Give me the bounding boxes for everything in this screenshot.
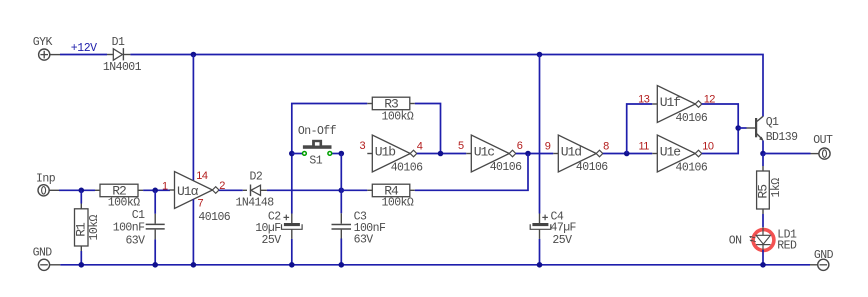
wire: [516, 153, 554, 155]
junction: [537, 262, 543, 268]
op-amp U1f: [652, 103, 657, 105]
svg-text:D2: D2: [250, 171, 263, 184]
junction: [152, 262, 158, 268]
svg-text:11: 11: [639, 140, 650, 152]
wire: [340, 154, 342, 214]
wire: [60, 54, 107, 56]
wire: [130, 55, 763, 117]
svg-text:40106: 40106: [676, 161, 708, 174]
svg-text:40106: 40106: [490, 161, 522, 174]
svg-text:40106: 40106: [198, 211, 230, 224]
svg-text:100kΩ: 100kΩ: [382, 196, 414, 209]
diode D1: [107, 54, 113, 56]
junction: [339, 151, 345, 157]
svg-text:10kΩ: 10kΩ: [88, 214, 101, 240]
junction: [735, 125, 741, 131]
svg-text:40106: 40106: [576, 161, 608, 174]
wire: [154, 190, 156, 214]
svg-text:7: 7: [198, 197, 204, 209]
wire: [219, 189, 243, 191]
svg-text:ON: ON: [729, 235, 742, 248]
svg-text:1: 1: [162, 180, 168, 192]
resistor R3: [367, 103, 372, 105]
junction: [191, 262, 197, 268]
wire: [762, 250, 764, 265]
wire: [702, 128, 738, 154]
junction: [289, 262, 295, 268]
resistor R1: [80, 204, 82, 209]
wire: [292, 104, 368, 214]
junction: [760, 262, 766, 268]
svg-text:25V: 25V: [262, 234, 282, 247]
wire: [340, 239, 342, 265]
svg-text:R3: R3: [384, 97, 398, 112]
wire: [603, 153, 653, 155]
op-amp U1d: [553, 153, 558, 155]
svg-text:RED: RED: [777, 239, 797, 252]
svg-text:40106: 40106: [676, 112, 708, 125]
wire: [539, 239, 541, 265]
wire: [59, 189, 95, 191]
junction: [289, 151, 295, 157]
svg-text:3: 3: [360, 140, 366, 152]
svg-text:BD139: BD139: [766, 131, 798, 144]
svg-text:10: 10: [702, 140, 714, 152]
svg-text:U1b: U1b: [375, 145, 396, 160]
svg-text:S1: S1: [309, 155, 322, 168]
wire: [143, 189, 170, 191]
wire: [60, 264, 810, 266]
svg-text:9: 9: [545, 140, 551, 152]
wire: [415, 104, 441, 154]
svg-text:U1d: U1d: [561, 145, 582, 160]
junction: [339, 188, 345, 194]
op-amp U1c: [466, 153, 471, 155]
junction: [339, 262, 345, 268]
switch S1: [292, 153, 302, 155]
svg-text:U1α: U1α: [177, 184, 199, 199]
junction: [525, 151, 531, 157]
svg-text:R5: R5: [756, 185, 771, 199]
resistor R5: [762, 166, 764, 171]
wire: [80, 190, 82, 203]
junction: [79, 262, 85, 268]
svg-text:U1f: U1f: [660, 95, 681, 110]
wire: [738, 127, 746, 129]
svg-text:GYK: GYK: [33, 36, 53, 49]
wire: [762, 214, 764, 227]
svg-text:Inp: Inp: [36, 172, 56, 185]
svg-text:R1: R1: [73, 222, 88, 237]
capacitor C2: [291, 214, 293, 224]
svg-text:14: 14: [196, 170, 208, 182]
op-amp U1a: [170, 189, 175, 191]
svg-text:100kΩ: 100kΩ: [108, 196, 140, 209]
wire: [192, 199, 194, 265]
wire: [539, 55, 541, 214]
terminal GYK: [39, 49, 50, 60]
svg-text:100nF: 100nF: [113, 221, 145, 234]
svg-text:6: 6: [517, 140, 523, 152]
svg-text:1N4148: 1N4148: [236, 196, 275, 209]
junction: [438, 151, 444, 157]
junction: [624, 151, 630, 157]
wire: [627, 104, 653, 154]
junction: [79, 188, 85, 194]
wire: [80, 251, 82, 265]
wire: [267, 189, 341, 191]
transistor Q1: [747, 127, 756, 129]
capacitor C1: [154, 214, 156, 224]
svg-text:U1c: U1c: [474, 145, 495, 160]
svg-text:63V: 63V: [354, 233, 374, 246]
svg-text:1kΩ: 1kΩ: [770, 178, 783, 198]
svg-text:5: 5: [458, 140, 464, 152]
terminal OUT: [811, 153, 820, 155]
svg-text:4: 4: [417, 140, 423, 152]
svg-text:47µF: 47µF: [551, 221, 577, 234]
svg-text:On-Off: On-Off: [298, 125, 337, 138]
resistor R4: [367, 189, 372, 191]
svg-text:100kΩ: 100kΩ: [382, 111, 414, 124]
svg-text:63V: 63V: [125, 235, 145, 248]
svg-text:40106: 40106: [391, 162, 423, 175]
wire: [763, 153, 811, 155]
svg-text:C1: C1: [132, 209, 145, 222]
svg-text:8: 8: [603, 140, 609, 152]
junction: [152, 188, 158, 194]
wire: [762, 141, 764, 154]
capacitor C4: [539, 214, 541, 224]
wire: [415, 154, 528, 191]
LED LD1: [753, 230, 774, 251]
wire: [762, 154, 764, 167]
svg-text:10µF: 10µF: [255, 222, 281, 235]
wire: [702, 104, 738, 128]
svg-text:25V: 25V: [552, 234, 572, 247]
wire: [417, 153, 467, 155]
diode D2: [243, 189, 247, 191]
wire: [192, 55, 194, 181]
svg-text:13: 13: [638, 93, 650, 105]
junction: [760, 151, 766, 157]
svg-text:OUT: OUT: [813, 134, 833, 147]
svg-text:U1e: U1e: [660, 145, 681, 160]
junction: [537, 52, 543, 58]
capacitor C3: [340, 213, 342, 223]
wire: [341, 189, 367, 191]
wire: [291, 239, 293, 265]
svg-text:GND: GND: [33, 247, 53, 260]
op-amp U1b: [367, 153, 372, 155]
svg-text:GND: GND: [814, 249, 834, 262]
wire: [154, 239, 156, 264]
terminal GND: [810, 264, 818, 266]
terminal GND: [38, 259, 49, 270]
svg-text:1N4001: 1N4001: [103, 61, 142, 74]
resistor R2: [95, 189, 100, 191]
svg-text:D1: D1: [112, 36, 125, 49]
svg-text:+12V: +12V: [71, 42, 97, 55]
terminal Inp: [38, 185, 49, 196]
op-amp U1e: [652, 153, 657, 155]
svg-text:Q1: Q1: [766, 116, 779, 129]
junction: [191, 52, 197, 58]
